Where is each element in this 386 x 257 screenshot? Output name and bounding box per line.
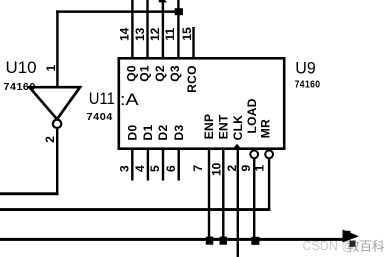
svg-text:LOAD: LOAD: [245, 98, 259, 133]
svg-text:6: 6: [164, 165, 178, 172]
wire Q3 pin line top: [177, 0, 179, 57]
svg-text:CLK: CLK: [231, 115, 245, 141]
node junction ENT on bus2: [220, 237, 228, 245]
wire D2 stub: [162, 150, 164, 181]
svg-text:11: 11: [163, 28, 177, 41]
svg-text:ENP: ENP: [202, 114, 216, 140]
svg-text:MR: MR: [259, 119, 273, 138]
svg-text:74160: 74160: [4, 82, 36, 93]
svg-text:Q3: Q3: [168, 65, 182, 82]
bubble MR pin: [265, 150, 273, 158]
svg-text:U10: U10: [6, 58, 37, 77]
wire D0 stub: [131, 150, 133, 181]
svg-text:ENT: ENT: [216, 114, 230, 139]
wire bus1 horizontal: [0, 208, 270, 211]
svg-text:7: 7: [191, 165, 205, 172]
svg-text:4: 4: [133, 165, 147, 172]
svg-text:RCO: RCO: [185, 65, 199, 93]
svg-text:5: 5: [148, 165, 162, 172]
wire MR pin line down to bus1: [268, 158, 270, 211]
IC body U9 74160: [119, 58, 284, 148]
svg-text:Q2: Q2: [153, 65, 167, 82]
wire CLK pin line down to bottom edge: [237, 150, 239, 257]
svg-text:7404: 7404: [87, 112, 113, 123]
svg-text:2: 2: [225, 165, 239, 172]
wire Q0 pin line top: [131, 0, 133, 57]
svg-text:12: 12: [148, 27, 162, 41]
svg-text:1: 1: [253, 165, 267, 172]
svg-text:U9: U9: [295, 59, 316, 78]
bubble on inverter output: [53, 120, 61, 128]
wire RCO pin stub: [192, 27, 194, 57]
wire ENP pin line down: [208, 150, 210, 241]
node junction LOAD on bus2: [251, 237, 259, 245]
wire inverter output vertical: [56, 128, 58, 195]
wire LOAD pin line down: [253, 158, 255, 242]
svg-text:D2: D2: [156, 125, 170, 141]
clock triangle on CLK pin: [232, 144, 242, 150]
node junction on Q3 wire: [175, 8, 183, 15]
svg-text:15: 15: [180, 27, 194, 41]
wire inverter output horizontal to left edge: [0, 192, 58, 195]
arrow right end of bus2: [343, 230, 360, 243]
svg-text:2: 2: [43, 136, 57, 143]
svg-text:3: 3: [118, 165, 132, 172]
node junction ENP on bus2: [206, 237, 214, 245]
wire bus2 horizontal: [0, 238, 346, 241]
svg-text:9: 9: [239, 165, 253, 172]
svg-text:D0: D0: [126, 125, 140, 141]
wire horizontal from inverter input to Q3: [56, 10, 179, 13]
op-amp U11 inverter triangle 7404: [30, 87, 81, 119]
arrow up on Q2 line: [159, 0, 167, 2]
wire inverter input vertical: [56, 10, 58, 86]
svg-text:D1: D1: [141, 125, 155, 141]
svg-text:Q0: Q0: [125, 65, 139, 82]
svg-text:14: 14: [118, 27, 132, 41]
wire Q2 pin line top: [162, 0, 164, 57]
wire Q1 pin line top: [146, 0, 148, 57]
wire ENT pin line down: [222, 150, 224, 241]
svg-text:U11: U11: [89, 89, 115, 108]
svg-text:D3: D3: [172, 125, 186, 141]
svg-text:13: 13: [133, 27, 147, 41]
bubble LOAD pin: [250, 150, 258, 158]
svg-text:74160: 74160: [295, 80, 321, 91]
svg-text::A: :A: [120, 90, 139, 109]
svg-text:1: 1: [44, 65, 58, 72]
svg-text:Q1: Q1: [138, 65, 152, 82]
wire D1 stub: [147, 150, 149, 181]
wire D3 stub: [178, 150, 180, 181]
svg-text:10: 10: [209, 162, 223, 176]
